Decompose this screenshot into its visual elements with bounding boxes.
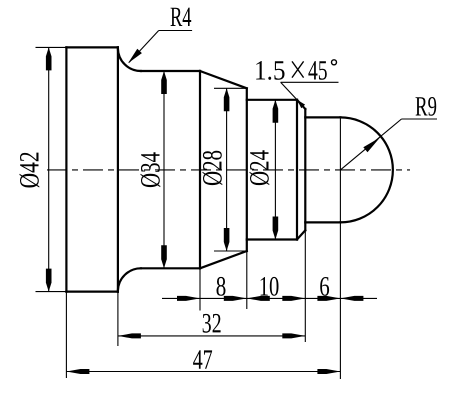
fillet R4 bottom [118,268,141,291]
crease line at chamfer end x=305.3 [304,109,306,230]
arrow dim34 bottom [161,245,167,268]
extension line x=66.4 [65,292,67,378]
top edge of neck section [305,116,340,118]
chamfer bottom edge [297,230,305,239]
shaft outline (thick profile) [66,47,392,291]
arrow row1 at 340.4 outside right [340,296,363,301]
left face [65,47,67,291]
underline R4 [159,30,192,32]
label R9 [416,97,437,116]
cone bottom edge [200,251,247,268]
underline R9 [402,118,438,120]
leader line R4 [129,31,159,63]
arrow dim47 left [66,369,89,374]
arrow dim47 right [317,369,340,374]
label diameter 28 [203,151,223,185]
arrow dim42 top [46,47,52,70]
arrow dim32 right [282,333,305,338]
label diameter 34 [141,152,161,187]
extension line x=305.3 [304,230,306,342]
arrow row1 at 246.8 from right [247,296,270,301]
extension line x=117.9 [117,292,119,346]
dimension line 32 [118,335,305,337]
dimension line Ø42 [48,47,50,291]
extension line bottom for Ø42 [36,291,67,293]
label 1.5x45deg: "45" part [308,61,326,80]
label 6 [320,277,329,296]
extension line x=340.4 through dome [339,117,341,379]
label 8 [217,277,226,296]
underline chamfer callout [281,81,339,83]
bottom edge of neck section [305,221,340,223]
cone top edge [200,71,247,88]
extension line top for Ø42 [36,46,67,48]
arrow row1 at 246.8 from left [224,296,247,301]
shoulder face line at Ø42 step [117,47,119,291]
top edge of Ø24 section [247,99,297,101]
extension line bottom for Ø28 [214,250,247,252]
centerline [47,169,410,171]
label 1.5x45deg: degree circle [332,60,337,65]
label R4 [171,8,192,26]
arrow dim42 bottom [46,269,52,292]
chamfer top edge [297,100,305,109]
thin dimension and extension lines [36,31,438,380]
crease line at cone start x=200 [199,71,201,268]
dimension arrowheads [46,47,380,374]
crease line at chamfer start x=297 [296,100,298,240]
arrow row1 at 340.4 from left [317,296,340,301]
fillet R4 top [118,47,141,71]
arrowhead R9 leader [363,138,380,153]
arrow dim28 bottom [224,228,230,251]
arrow dim24 top [273,100,279,123]
arrow dim34 top [161,71,167,94]
shoulder face line at x=246.8 [246,88,248,251]
arrow row1 at 200 outside left [177,296,200,301]
top edge of Ø42 section [66,46,118,48]
leader line chamfer callout [281,82,297,100]
arrowhead chamfer leader [297,100,305,108]
label 1.5x45deg: "1.5" part [256,61,284,80]
extension line x=246.8 [246,251,248,309]
label 10 [261,277,279,296]
arrow row1 at 305.3 from left [282,296,305,301]
label diameter 24 [250,150,270,185]
dimension line 47 [66,371,340,373]
dimension line row 8/10/6 [162,297,377,299]
label 32 [203,314,221,333]
dimension line Ø28 [226,88,228,251]
extension line x=200 [199,268,201,310]
label 1.5x45deg: big X [292,61,304,77]
bottom edge of Ø24 section [247,238,297,240]
arrow dim28 top [224,88,230,111]
dome R9 arc [340,117,392,222]
arrow dim32 left [118,333,141,338]
top edge of Ø34 section [141,70,200,72]
arrowhead R4 leader [128,49,142,64]
bottom edge of Ø42 section [66,291,118,293]
leader line R9 [340,119,401,170]
label 47 [193,350,212,368]
bottom edge of Ø34 section [141,267,200,269]
arrow dim24 bottom [273,217,279,240]
label diameter 42 [20,153,40,188]
dimension line Ø34 [163,71,165,268]
dimension line Ø24 [274,100,276,240]
extension line top for Ø28 [214,87,247,89]
